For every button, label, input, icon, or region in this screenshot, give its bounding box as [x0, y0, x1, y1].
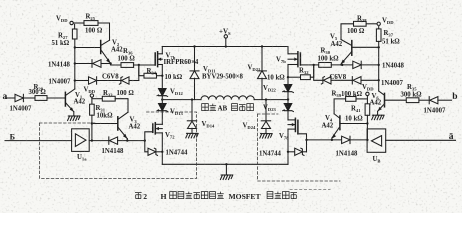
wire V1 emitter to ground [73, 112, 75, 116]
wire R39 to V4 collector [334, 99, 346, 114]
wire to motor node B [287, 92, 289, 104]
wire V7c drain up [161, 111, 163, 125]
wire R25 to V2 collector bend [98, 23, 110, 40]
diode VD11 BYV29 [190, 71, 199, 79]
wire diode to UB [350, 139, 367, 141]
wire motor row left [162, 99, 201, 101]
diode 1N4148 upper-left [91, 60, 93, 68]
wire R32 to source column [288, 76, 301, 78]
wire R33 to V3 collector [115, 99, 128, 113]
transistor V2 [100, 41, 102, 54]
transistor V3 [117, 117, 119, 130]
wire diode to gate node V7c [118, 140, 145, 142]
wire R36 to gate node V7a [134, 64, 156, 66]
wire R28 to V5 collector bend [341, 24, 354, 40]
RIGHT-BOTTOM-MOSFET V7d [288, 119, 295, 121]
caption CJK glyphs [135, 192, 297, 199]
diode 1N4007 input left [15, 94, 23, 101]
wire R30 to V5 emitter node [331, 64, 353, 66]
diode 1N4148 lower-right [342, 136, 350, 143]
node VDD terminal mid-left [90, 94, 93, 97]
wire gate riser V7c [145, 132, 153, 141]
wire V7b source down [287, 65, 289, 85]
resistor R27 [72, 29, 77, 39]
diode 1N4007 clamp right [351, 77, 353, 84]
diode VD14 [187, 120, 196, 122]
wire VDD to R33b [356, 98, 367, 100]
wire V7b gate to node [300, 64, 313, 66]
node VDD terminal right top [377, 22, 380, 25]
diode 1N4007 input right [428, 97, 430, 104]
node +VS terminal [225, 38, 227, 45]
resistor R39 [346, 97, 356, 102]
wire diode to V2 emitter node [101, 63, 111, 65]
resistor R31 [90, 104, 95, 115]
wire zener to source column [156, 151, 162, 153]
buffer UA [72, 129, 90, 152]
wire VDD to R25 [73, 22, 84, 24]
zener 1N4744 right [295, 148, 303, 155]
wire input b-bar to UA [5, 140, 72, 142]
wire ground stub bottom [225, 164, 227, 175]
wire R34 branch down from gate node [139, 65, 144, 76]
ground VD24 [260, 134, 272, 139]
wire +VS top rail [162, 46, 288, 48]
wire VDD down to R37 [378, 26, 380, 29]
wire R30 row [314, 64, 319, 66]
zener C6V8 right [324, 77, 332, 84]
JUNCTION-DOTS [74, 45, 380, 165]
wire V7a drain to +VS rail [161, 47, 163, 54]
wire R41 down to junction [366, 115, 368, 140]
diode 1N4148 lower-left [108, 137, 110, 144]
diode VD24 [261, 120, 270, 122]
wire diode to R29 [23, 97, 35, 99]
wire bottom rail [162, 163, 288, 165]
wire VD24 column [265, 100, 267, 121]
zener VD13 [159, 104, 167, 111]
wire zener to bend [129, 80, 139, 82]
wire V5 base [352, 46, 379, 48]
wire VDD down to R27 [74, 24, 76, 29]
wire R29 to V1 base [47, 97, 65, 99]
zener VD12 [159, 89, 167, 96]
wire V7c source to bottom rail [161, 133, 163, 164]
wire C6V8 row right [314, 65, 323, 80]
resistor R28 [354, 21, 367, 26]
transistor V1 [64, 92, 66, 106]
wire gate node down to zener [145, 141, 148, 152]
wire V7d gate riser [298, 134, 307, 152]
buffer UB [367, 129, 386, 152]
wire clamp to right column [361, 79, 379, 81]
dashed module box left [40, 112, 341, 190]
wire VDD2 to R33 [92, 98, 102, 100]
wire input a [6, 97, 16, 99]
wire VDD stub down [366, 96, 368, 104]
wire zener row right [288, 151, 295, 153]
resistor R33 [102, 96, 115, 101]
mosfet V7c [152, 124, 154, 132]
resistor R34 [144, 73, 157, 78]
node VDD terminal left top [70, 21, 73, 24]
wire VD14 column [191, 100, 193, 121]
diode 1N4148 upper-right [353, 61, 361, 68]
wire V4 base [340, 123, 368, 125]
wire left column R27 to V1 collector [74, 39, 76, 89]
transistor V6 [379, 91, 385, 95]
TEXT-LABELS [3, 14, 458, 202]
dashed module box right [258, 114, 341, 181]
wire VDD2 stub down [91, 97, 93, 104]
wire leg to motor node A [161, 96, 163, 104]
ground VD14 [186, 133, 198, 138]
resistor R30 [319, 63, 332, 68]
ground V1 [68, 116, 80, 121]
resistor R32 [301, 75, 311, 80]
resistor R37 [376, 29, 381, 42]
ground bridge [220, 175, 232, 180]
diode VD21 [258, 71, 267, 79]
wire V6 base to R35 [385, 99, 407, 101]
zener 1N4744 left [148, 148, 156, 155]
wire motor row right [254, 99, 288, 101]
wire VD21 column [261, 47, 263, 71]
wire between right clamp diodes [331, 79, 352, 81]
wire R31 down to junction [91, 115, 93, 140]
wire right row y140 [307, 139, 342, 141]
transistor V5 [351, 41, 353, 56]
wire VD11 column [194, 47, 196, 71]
node VDD terminal mid-right [366, 92, 369, 95]
wire V7d source down [287, 129, 289, 164]
wire VD23 to V7d drain [287, 111, 289, 120]
wire UB output to a-bar [386, 139, 456, 141]
wire C6V8 bend up to gate node [138, 65, 140, 81]
resistor R36 [121, 63, 134, 68]
wire R35 to diode [419, 99, 429, 101]
resistor R41 [365, 104, 370, 116]
mosfet V7a [154, 53, 156, 65]
resistor R29 [35, 96, 47, 101]
mosfet V7d body [294, 118, 296, 131]
inductor motor winding [201, 96, 254, 100]
wire UA output row [89, 140, 109, 142]
wire V7b drain [287, 47, 289, 54]
mosfet V7b body [297, 52, 299, 67]
wire 1N4148 row left [75, 63, 92, 65]
wire right column down [378, 41, 380, 91]
wire V2 emitter to R36 [111, 64, 121, 66]
motor winding label CJK [202, 104, 254, 111]
wire R34 to source column [157, 75, 163, 77]
zener C6V8 left [122, 77, 130, 84]
wire V3 base [92, 123, 118, 125]
wire between clamp diodes [97, 80, 121, 82]
wire diode to b [438, 99, 452, 101]
resistor R35 [406, 98, 419, 103]
wire VDD to R28 [366, 23, 377, 25]
zener VD22 [284, 85, 292, 92]
wire V2 base [75, 47, 101, 49]
resistor R25 [84, 21, 98, 26]
wire diode to right column [361, 64, 379, 66]
wire V7a source down [161, 65, 163, 89]
transistor V4 [339, 116, 341, 130]
ground V6 [372, 115, 384, 120]
wire R32 branch [310, 65, 314, 77]
diode 1N4007 clamp left [89, 77, 97, 84]
zener VD23 [284, 104, 292, 111]
wire C6V8 row from left column [75, 80, 89, 82]
